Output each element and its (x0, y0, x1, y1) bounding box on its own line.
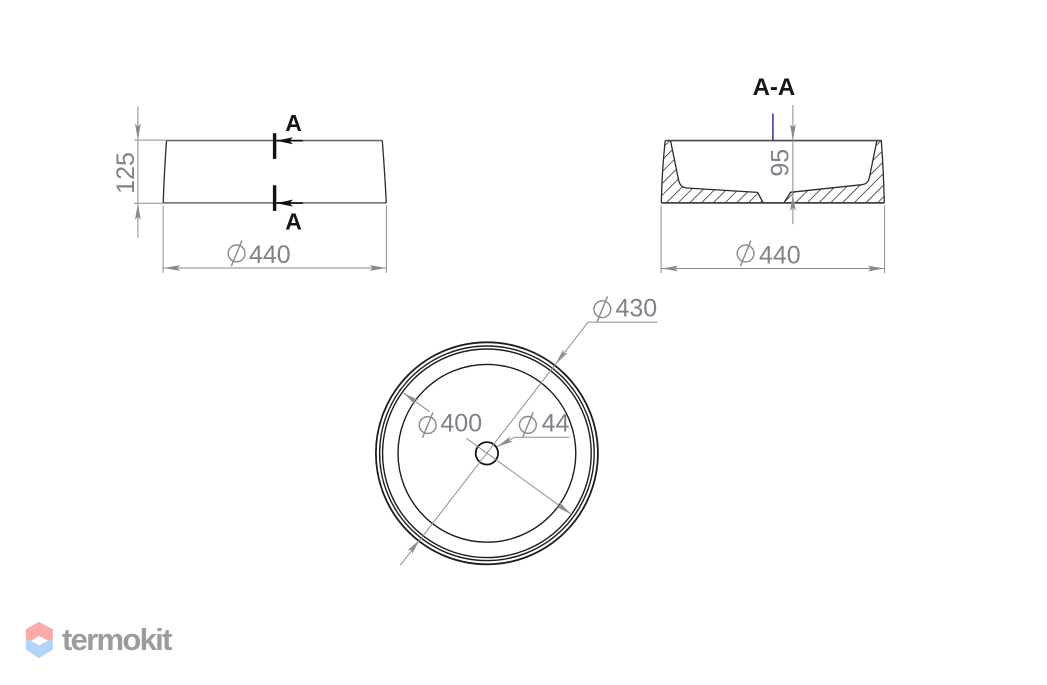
drain circle d44 (476, 442, 498, 464)
svg-text:430: 430 (616, 295, 658, 323)
dim 95 dimension line (792, 105, 794, 224)
logo hexagon blue bottom (26, 640, 53, 658)
dim 400 leader upper segment (403, 393, 429, 412)
logo hexagon pink top (26, 622, 53, 641)
dim 440 right dimension line (661, 268, 884, 270)
dim 95 arrow top (790, 124, 796, 141)
section outer wall left (661, 141, 665, 203)
section inner wall right (784, 141, 877, 203)
dim 440 left arrow left (164, 265, 181, 271)
dim 440 right arrow left (662, 266, 679, 272)
basin body right edge (382, 141, 386, 203)
svg-text:termokit: termokit (62, 622, 172, 657)
section outer wall right (881, 141, 884, 203)
svg-text:A: A (285, 110, 302, 136)
dim 440 left dimension line (163, 267, 386, 269)
svg-text:44: 44 (542, 410, 570, 438)
dim 400 leader lower segment (466, 438, 571, 514)
dim 95 arrow bottom (790, 194, 796, 211)
dim 125 dimension line (137, 107, 139, 238)
outer circle d440 (376, 342, 598, 564)
dim 125 arrow top (135, 124, 141, 141)
dim 440 right diameter symbol (737, 241, 754, 267)
dim 440 right arrow right (868, 266, 885, 272)
dim 400 diameter symbol (419, 412, 436, 438)
dim 440 right ext line right (884, 206, 886, 274)
svg-text:A: A (285, 208, 302, 234)
basin body left edge (163, 141, 166, 203)
dim 440 left arrow right (370, 265, 387, 271)
dim 430 leader (400, 322, 657, 565)
basin body top edge (167, 140, 383, 142)
dim 440 left ext line right (385, 206, 387, 273)
svg-text:440: 440 (759, 241, 801, 269)
circle rim inner (383, 349, 592, 558)
svg-text:400: 400 (440, 410, 482, 438)
circle bowl floor (398, 364, 576, 542)
dim 125 extension line top (134, 139, 167, 141)
logo white diamond (31, 636, 47, 646)
svg-text:125: 125 (112, 152, 140, 194)
dim 440 left ext line left (162, 206, 164, 273)
svg-text:A-A: A-A (753, 74, 796, 101)
blue centerline (772, 114, 774, 141)
section inner wall left (671, 141, 764, 203)
svg-text:95: 95 (766, 149, 794, 177)
section bottom line (661, 202, 884, 204)
dim 430 diameter symbol (594, 296, 611, 322)
svg-text:440: 440 (249, 241, 291, 269)
section cut arrow bottom (276, 200, 293, 207)
basin body bottom edge (163, 202, 386, 204)
dim 125 arrow bottom (135, 203, 141, 220)
dim 125 extension line bottom (134, 202, 163, 204)
hatch region right wall (784, 141, 884, 203)
section cut bar top (273, 133, 276, 159)
section cut bar bottom (273, 185, 276, 211)
dim 440 right ext line left (660, 206, 662, 274)
dim 430 arrow upper (553, 349, 568, 366)
section cut arrow top (276, 137, 293, 144)
dim 430 arrow lower (408, 537, 423, 554)
dim 400 arrow upper (402, 390, 419, 404)
circle d430 (380, 346, 595, 561)
dim 400 arrow lower (556, 502, 573, 516)
dim 440 left diameter symbol (228, 241, 245, 267)
dim 44 leader (497, 437, 570, 447)
dim 44 diameter symbol (520, 412, 537, 438)
dim 44 arrow (496, 436, 513, 449)
section rim line (665, 140, 882, 142)
hatch region left wall (661, 141, 763, 203)
